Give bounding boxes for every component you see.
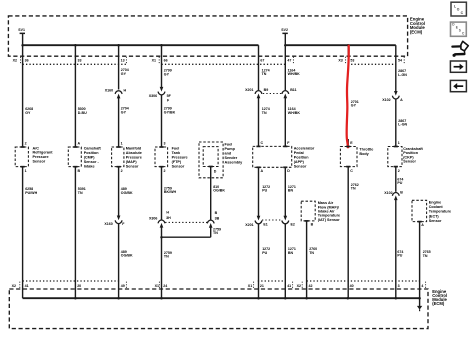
svg-text:E: E — [456, 25, 458, 29]
svg-text:41: 41 — [287, 284, 291, 288]
svg-text:TN: TN — [262, 111, 267, 115]
svg-text:B11: B11 — [290, 88, 296, 92]
svg-text:O: O — [457, 8, 460, 12]
svg-text:GY: GY — [164, 72, 170, 76]
svg-text:GY: GY — [121, 72, 127, 76]
svg-text:Intake: Intake — [84, 165, 95, 169]
svg-text:Sensor: Sensor — [429, 219, 442, 223]
svg-text:X3: X3 — [338, 58, 342, 62]
svg-text:C: C — [261, 141, 264, 145]
svg-text:Sensor: Sensor — [126, 165, 139, 169]
svg-text:Coolant: Coolant — [429, 205, 444, 209]
svg-text:Sender: Sender — [225, 156, 238, 160]
svg-text:(ECM): (ECM) — [410, 30, 423, 35]
svg-text:OG/BK: OG/BK — [121, 254, 133, 258]
svg-text:A: A — [261, 169, 264, 173]
svg-text:40: 40 — [350, 284, 354, 288]
svg-text:Position: Position — [84, 151, 100, 155]
svg-text:PU: PU — [397, 254, 402, 258]
svg-text:24: 24 — [163, 284, 167, 288]
svg-text:Absolute: Absolute — [126, 151, 142, 155]
svg-text:X201: X201 — [245, 88, 253, 92]
svg-text:X2: X2 — [12, 284, 16, 288]
svg-text:Pedal: Pedal — [294, 151, 304, 155]
svg-text:TN: TN — [262, 72, 267, 76]
svg-text:3H: 3H — [166, 216, 171, 220]
svg-text:2: 2 — [164, 169, 166, 173]
svg-text:H: H — [166, 211, 169, 215]
svg-text:67: 67 — [260, 58, 264, 62]
svg-text:Camshaft: Camshaft — [84, 147, 102, 151]
svg-text:BN: BN — [288, 251, 294, 255]
svg-text:36: 36 — [25, 58, 29, 62]
svg-text:41: 41 — [25, 284, 29, 288]
svg-text:(FTP): (FTP) — [172, 160, 182, 164]
svg-text:TN: TN — [213, 231, 218, 235]
svg-text:2: 2 — [25, 142, 27, 146]
svg-text:Fuel: Fuel — [225, 143, 233, 147]
svg-text:OG/BK: OG/BK — [121, 191, 133, 195]
svg-text:Tank: Tank — [172, 151, 181, 155]
svg-text:X102: X102 — [384, 191, 392, 195]
svg-text:B: B — [311, 222, 314, 226]
svg-text:TN: TN — [423, 254, 428, 258]
svg-text:X201: X201 — [245, 223, 253, 227]
svg-text:GY/BK: GY/BK — [164, 110, 176, 114]
svg-text:TN: TN — [309, 251, 314, 255]
svg-text:TN: TN — [351, 187, 356, 191]
svg-text:X160: X160 — [104, 222, 112, 226]
svg-text:L-GN: L-GN — [398, 73, 407, 77]
svg-text:X1: X1 — [248, 284, 252, 288]
svg-text:3: 3 — [398, 284, 400, 288]
svg-text:and: and — [225, 152, 232, 156]
svg-text:Pressure: Pressure — [126, 156, 142, 160]
svg-text:Fuel: Fuel — [172, 147, 180, 151]
svg-text:D: D — [214, 170, 217, 174]
svg-text:20: 20 — [77, 284, 81, 288]
svg-text:Accelerator: Accelerator — [294, 147, 315, 151]
svg-text:2: 2 — [398, 169, 400, 173]
svg-text:42: 42 — [309, 284, 313, 288]
svg-text:3B: 3B — [215, 216, 220, 220]
svg-text:X2: X2 — [297, 284, 301, 288]
svg-text:4: 4 — [421, 284, 423, 288]
svg-text:53: 53 — [350, 58, 354, 62]
svg-text:PU: PU — [397, 181, 402, 185]
svg-text:B: B — [78, 169, 81, 173]
svg-text:49: 49 — [121, 284, 125, 288]
svg-text:OG/BK: OG/BK — [213, 189, 225, 193]
svg-text:(IAT) Sensor: (IAT) Sensor — [318, 218, 341, 222]
svg-text:Manifold: Manifold — [126, 147, 142, 151]
svg-text:SV2: SV2 — [281, 28, 288, 32]
svg-text:B9: B9 — [264, 88, 269, 92]
svg-text:X306: X306 — [149, 94, 157, 98]
svg-text:BK/WH: BK/WH — [164, 190, 177, 194]
svg-text:H: H — [124, 88, 127, 92]
svg-text:Engine: Engine — [429, 201, 442, 205]
svg-text:Temperature: Temperature — [429, 210, 451, 214]
svg-text:1: 1 — [25, 169, 27, 173]
svg-text:(ECM): (ECM) — [432, 301, 445, 306]
svg-text:GY: GY — [121, 110, 127, 114]
svg-text:X1: X1 — [155, 284, 159, 288]
svg-text:WH/BK: WH/BK — [288, 72, 301, 76]
svg-text:X102: X102 — [382, 98, 390, 102]
svg-text:SV1: SV1 — [18, 28, 25, 32]
svg-text:B: B — [400, 190, 403, 194]
svg-text:PU/WH: PU/WH — [25, 191, 37, 195]
svg-text:54: 54 — [398, 58, 402, 62]
svg-text:GY: GY — [25, 111, 31, 115]
svg-text:D: D — [287, 169, 290, 173]
svg-text:Sensor: Sensor — [294, 165, 307, 169]
svg-text:33: 33 — [78, 58, 82, 62]
svg-text:PU: PU — [262, 189, 267, 193]
svg-text:(MAP): (MAP) — [126, 160, 138, 164]
svg-text:A: A — [78, 142, 81, 146]
svg-text:1: 1 — [121, 142, 123, 146]
svg-text:(ECT): (ECT) — [429, 214, 440, 218]
svg-text:1: 1 — [398, 141, 400, 145]
svg-text:2: 2 — [121, 169, 123, 173]
svg-text:Pressure: Pressure — [172, 156, 188, 160]
svg-text:Sensor: Sensor — [403, 160, 416, 164]
svg-text:D-BU: D-BU — [78, 111, 87, 115]
svg-text:Sensor: Sensor — [172, 165, 185, 169]
svg-text:X160: X160 — [105, 88, 113, 92]
svg-text:S: S — [459, 28, 461, 32]
svg-text:Assembly: Assembly — [225, 161, 244, 165]
svg-text:X2: X2 — [13, 58, 17, 62]
svg-text:C: C — [350, 169, 353, 173]
svg-text:21: 21 — [260, 284, 264, 288]
svg-text:BN: BN — [288, 189, 294, 193]
svg-text:Pump: Pump — [225, 147, 236, 151]
svg-text:L-GN: L-GN — [398, 123, 407, 127]
svg-text:B: B — [215, 211, 218, 215]
svg-text:A: A — [400, 98, 403, 102]
svg-text:Sensor -: Sensor - — [84, 160, 100, 164]
svg-text:E1: E1 — [263, 222, 267, 226]
svg-text:(CMP): (CMP) — [84, 156, 96, 160]
svg-text:(APP): (APP) — [294, 160, 305, 164]
svg-text:13: 13 — [121, 58, 125, 62]
svg-text:3: 3 — [164, 142, 166, 146]
svg-text:PU: PU — [262, 251, 267, 255]
svg-text:WH/BK: WH/BK — [288, 111, 301, 115]
svg-text:Position: Position — [294, 156, 310, 160]
svg-text:47: 47 — [287, 58, 291, 62]
svg-text:GY: GY — [351, 104, 357, 108]
svg-text:Body: Body — [359, 152, 369, 156]
svg-text:66: 66 — [164, 58, 168, 62]
svg-text:TN: TN — [164, 255, 169, 259]
svg-text:E2: E2 — [291, 223, 295, 227]
svg-text:Sensor: Sensor — [33, 159, 46, 163]
svg-text:X306: X306 — [149, 216, 157, 220]
svg-text:A: A — [421, 223, 424, 227]
svg-text:TN: TN — [78, 191, 83, 195]
svg-text:X1: X1 — [152, 58, 156, 62]
